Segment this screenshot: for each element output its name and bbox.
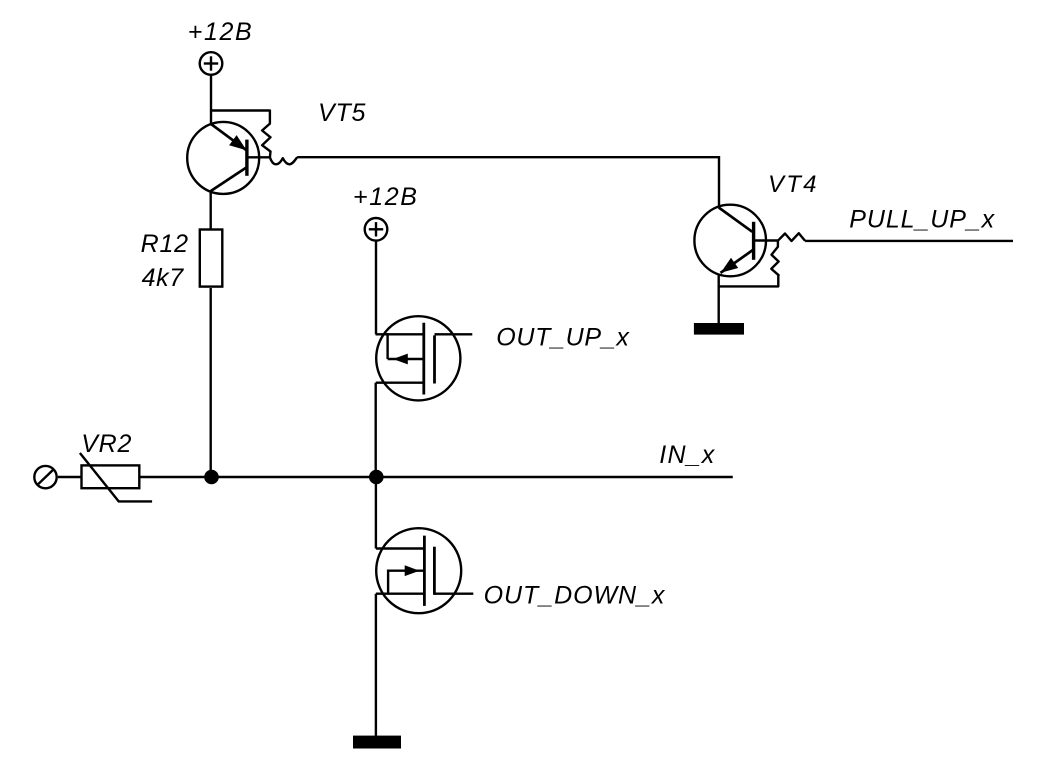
node B junction dot: [369, 470, 384, 485]
wire VR2 to node A: [141, 476, 212, 478]
svg-text:VT5: VT5: [318, 99, 366, 127]
MOSFET Q-down (n-channel, OUT_DOWN): [376, 528, 473, 613]
wire R12 to node A: [209, 288, 211, 477]
wire supply2 to Q-up source: [375, 241, 378, 335]
squiggle vertical zigzag at VT5: [262, 110, 270, 158]
svg-text:VR2: VR2: [81, 430, 132, 458]
wire Q-up drain to node B: [375, 383, 377, 477]
svg-text:IN_x: IN_x: [659, 441, 716, 469]
wire emitter-top branch to squiggle: [211, 109, 270, 111]
svg-text:PULL_UP_x: PULL_UP_x: [849, 206, 995, 234]
squiggle vertical zigzag VT4 base to emitter: [719, 241, 779, 287]
varistor VR2: [80, 453, 152, 501]
squiggle horizontal wave at VT5 base: [270, 157, 297, 164]
wire node A to node B: [212, 476, 377, 478]
wire VT4 emitter to ground: [718, 274, 720, 324]
squiggle horizontal zigzag at VT4 base: [778, 233, 805, 241]
MOSFET Q-up (p-channel, OUT_UP): [376, 316, 473, 400]
transistor VT5: [187, 122, 270, 194]
wire VT5 collector to R12: [209, 190, 211, 229]
wire Q-down source to ground: [375, 594, 377, 736]
wire terminal to VR2: [58, 476, 81, 478]
input terminal (circle with slash): [34, 466, 56, 488]
svg-text:OUT_DOWN_x: OUT_DOWN_x: [484, 582, 666, 610]
resistor R12: [200, 230, 223, 287]
svg-text:R12: R12: [141, 230, 189, 258]
power terminal +12B (supply 1): [200, 52, 223, 75]
svg-text:OUT_UP_x: OUT_UP_x: [496, 324, 630, 352]
wire IN_x: [376, 476, 733, 478]
ground (bottom): [353, 736, 401, 749]
wire PULL_UP_x: [805, 240, 1013, 242]
power terminal +12B (supply 2): [365, 218, 388, 241]
transistor VT4: [694, 205, 778, 277]
svg-text:4k7: 4k7: [142, 264, 185, 292]
wire node B to Q-down drain: [375, 477, 377, 549]
svg-text:+12B: +12B: [188, 18, 253, 46]
wire VT5 base to VT4 collector: [297, 157, 719, 207]
node A junction dot: [204, 470, 219, 485]
svg-text:VT4: VT4: [768, 171, 819, 198]
svg-text:+12B: +12B: [353, 183, 418, 211]
ground (VT4 emitter): [694, 323, 744, 335]
wire supply1 to VT5 emitter: [210, 75, 212, 125]
